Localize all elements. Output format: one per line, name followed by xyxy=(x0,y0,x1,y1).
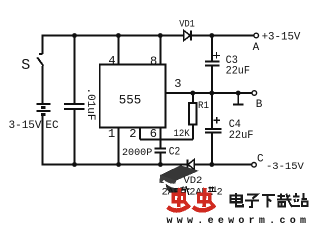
svg-text:4: 4 xyxy=(108,54,115,68)
wire pins 2-6 to R1 bottom xyxy=(140,139,193,141)
wire pin 2 xyxy=(139,128,141,140)
svg-text:8: 8 xyxy=(150,54,157,68)
switch top contact foot xyxy=(39,53,43,55)
svg-text:1: 1 xyxy=(108,127,115,141)
wire C1 branch upper xyxy=(74,36,76,105)
wire C4 upper xyxy=(211,93,213,129)
svg-text:C: C xyxy=(257,153,264,165)
svg-text:S: S xyxy=(21,57,30,74)
watermark red bug char 1 xyxy=(168,188,190,211)
junction dots bottom rail xyxy=(72,162,214,167)
svg-text:3-15V: 3-15V xyxy=(9,120,42,132)
svg-text:www.eeworm.com: www.eeworm.com xyxy=(167,216,307,223)
capacitor C3 plates xyxy=(205,61,220,65)
wire top rail left of VD1 xyxy=(43,35,184,37)
svg-text:2: 2 xyxy=(217,188,223,199)
diode VD1 triangle xyxy=(184,30,191,40)
watermark cap board front edge xyxy=(159,175,176,185)
svg-text:EC: EC xyxy=(45,120,59,132)
svg-text:22uF: 22uF xyxy=(229,130,254,142)
wire pin 6 xyxy=(159,128,161,140)
CJK char huo (or) xyxy=(180,186,189,195)
wire C3 lower xyxy=(211,65,213,93)
CJK char xing (type) partially hidden xyxy=(208,186,216,195)
svg-text:22uF: 22uF xyxy=(226,65,250,77)
watermark CJK dian (electric) xyxy=(230,193,243,206)
wire pin 3 output line to B xyxy=(165,92,251,94)
wire bottom rail left of VD2 xyxy=(43,164,188,166)
op 555 IC body U1 xyxy=(100,65,166,128)
battery EC plates xyxy=(37,104,51,115)
wire pin 1 xyxy=(118,128,120,165)
watermark CJK zai (load) xyxy=(277,193,293,207)
svg-text:VD1: VD1 xyxy=(179,19,195,30)
wire R1 top xyxy=(192,93,194,103)
wire pin 4 xyxy=(117,36,119,65)
ground symbol at B xyxy=(233,93,243,105)
wire C4 lower xyxy=(211,133,213,165)
wire switch to battery xyxy=(42,66,44,104)
terminal C circle xyxy=(252,163,257,168)
svg-text:VD2: VD2 xyxy=(183,176,202,187)
watermark cap base xyxy=(166,184,185,194)
svg-text:+3-15V: +3-15V xyxy=(262,32,301,44)
terminal B circle xyxy=(252,91,257,96)
svg-text:A: A xyxy=(253,42,260,54)
capacitor C3 plus sign xyxy=(213,52,220,59)
svg-text:.01uF: .01uF xyxy=(84,88,96,121)
svg-text:B: B xyxy=(256,99,263,111)
svg-text:C2: C2 xyxy=(169,146,181,158)
terminal A circle xyxy=(254,33,259,38)
svg-text:2: 2 xyxy=(129,127,136,141)
svg-text:R1: R1 xyxy=(198,100,209,112)
svg-text:3: 3 xyxy=(174,77,181,91)
diode VD2 triangle (points left) xyxy=(188,159,195,169)
watermark CJK zi (sub) xyxy=(245,195,259,207)
resistor R1 body xyxy=(189,103,197,125)
svg-text:555: 555 xyxy=(119,93,142,107)
capacitor C2 plates (2000P) xyxy=(155,149,167,153)
wire C3 upper xyxy=(211,36,213,62)
watermark CJK xia (down) xyxy=(262,195,275,207)
watermark cap white swoosh xyxy=(163,175,194,185)
switch S lever xyxy=(37,57,43,66)
svg-text:12K: 12K xyxy=(174,128,191,140)
wire R1 bottom xyxy=(192,125,194,140)
watermark graduation cap board xyxy=(160,165,199,180)
svg-text:-3-15V: -3-15V xyxy=(266,161,305,173)
wire top rail right of VD1 xyxy=(191,35,254,37)
capacitor C4 plates xyxy=(205,129,222,133)
watermark red bug char 2 xyxy=(193,188,215,211)
wire battery to bottom rail xyxy=(42,115,44,166)
capacitor C1 plates (.01uF) xyxy=(64,104,84,109)
wire C1 branch lower xyxy=(74,109,76,165)
junction dots output line xyxy=(190,91,240,96)
junction dots top rail xyxy=(72,33,214,38)
watermark CJK zhan (site) xyxy=(292,193,307,206)
capacitor C4 plus sign xyxy=(213,117,220,124)
svg-text:6: 6 xyxy=(150,127,157,141)
svg-text:2000P: 2000P xyxy=(122,147,152,159)
wire C2 lower xyxy=(159,152,161,164)
wire left column top (to switch) xyxy=(42,35,44,54)
wire pin 8 xyxy=(159,36,161,65)
wire C2 upper xyxy=(159,140,161,149)
wire bottom rail right of VD2 xyxy=(194,164,252,166)
